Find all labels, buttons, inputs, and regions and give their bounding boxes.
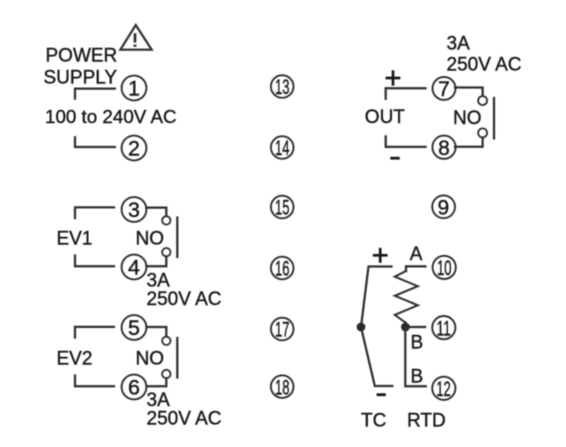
- TC junction dot: [357, 323, 366, 332]
- terminal 13: [271, 75, 294, 99]
- svg-text:100 to 240V AC: 100 to 240V AC: [45, 106, 177, 127]
- label - (OUT polarity): [392, 157, 399, 160]
- wire to terminal 7: [386, 88, 426, 99]
- wire to terminal 1 (L line): [75, 89, 115, 99]
- RTD junction dot: [401, 323, 410, 332]
- wire terminal 5 to EV2 contact: [147, 327, 167, 337]
- svg-text:12: 12: [436, 378, 451, 401]
- wire terminal 3 to EV1 contact: [146, 208, 166, 216]
- wire to terminal 2 (N line): [75, 137, 115, 147]
- svg-text:RTD: RTD: [407, 410, 446, 431]
- svg-text:5: 5: [128, 316, 140, 340]
- svg-text:15: 15: [275, 197, 290, 220]
- wire junction to terminal 11: [410, 326, 425, 328]
- svg-text:250V AC: 250V AC: [147, 409, 222, 430]
- svg-text:NO: NO: [136, 229, 165, 250]
- wire to terminal 3: [75, 207, 114, 218]
- label + (TC polarity): [374, 249, 386, 261]
- svg-text:6: 6: [128, 376, 140, 400]
- EV1 relay contact lower pole: [162, 248, 170, 256]
- svg-text:13: 13: [275, 76, 290, 99]
- wire TC plus lead: [361, 267, 392, 328]
- wire terminal 10 to resistor: [406, 266, 425, 271]
- terminal 16: [271, 257, 294, 281]
- OUT relay contact upper pole: [478, 96, 487, 105]
- wire resistor to junction: [404, 323, 406, 328]
- terminal 6: [122, 375, 147, 400]
- OUT contact actuator bar: [493, 98, 495, 139]
- svg-text:9: 9: [438, 197, 450, 220]
- svg-text:EV2: EV2: [57, 349, 93, 370]
- terminal 11: [432, 316, 455, 340]
- EV2 contact actuator bar: [176, 338, 178, 378]
- svg-text:POWER: POWER: [46, 46, 118, 67]
- svg-text:NO: NO: [453, 108, 482, 129]
- terminal 10: [433, 256, 456, 280]
- terminal 1: [122, 76, 147, 101]
- svg-text:250V AC: 250V AC: [147, 289, 222, 310]
- terminal 5: [122, 315, 147, 340]
- svg-text:17: 17: [275, 319, 290, 342]
- terminal 14: [271, 136, 294, 160]
- svg-text:7: 7: [438, 78, 450, 101]
- label - (TC polarity): [378, 393, 384, 396]
- wire to terminal 6: [75, 376, 114, 387]
- label POWER SUPPLY: [44, 46, 118, 89]
- svg-text:3A: 3A: [447, 34, 471, 55]
- svg-text:16: 16: [275, 258, 290, 281]
- svg-text:18: 18: [275, 376, 290, 399]
- svg-text:4: 4: [128, 256, 140, 280]
- svg-text:EV1: EV1: [57, 229, 93, 250]
- svg-text:8: 8: [438, 137, 450, 160]
- wire TC minus lead: [361, 327, 392, 386]
- svg-text:SUPPLY: SUPPLY: [44, 68, 118, 89]
- terminal 4: [122, 255, 147, 280]
- svg-text:250V AC: 250V AC: [447, 54, 522, 75]
- terminal 9: [432, 195, 455, 219]
- EV1 contact actuator bar: [176, 218, 178, 258]
- wire junction to terminal 12: [405, 332, 426, 387]
- warning symbol caution triangle: [120, 25, 151, 50]
- terminal 18: [271, 375, 294, 399]
- terminal 8: [432, 136, 455, 160]
- EV2 relay contact upper pole: [162, 337, 170, 345]
- wire terminal 7 to OUT contact: [455, 88, 483, 96]
- wire OUT contact to terminal 8: [455, 138, 483, 147]
- svg-text:TC: TC: [361, 410, 386, 431]
- terminal 7: [433, 77, 456, 101]
- svg-text:B: B: [411, 333, 424, 354]
- terminal 2: [122, 136, 147, 161]
- OUT relay contact lower pole: [478, 128, 487, 137]
- EV1 relay contact upper pole: [162, 216, 170, 224]
- terminal 15: [271, 196, 294, 220]
- wire EV2 contact to terminal 6: [147, 378, 167, 386]
- wire to terminal 5: [75, 327, 114, 338]
- svg-text:A: A: [410, 244, 423, 265]
- label + (OUT polarity): [387, 72, 399, 85]
- svg-text:OUT: OUT: [365, 107, 406, 128]
- EV2 relay contact lower pole: [162, 370, 170, 378]
- resistor RTD element: [395, 271, 418, 323]
- svg-text:1: 1: [128, 77, 140, 101]
- terminal 17: [271, 318, 294, 342]
- svg-text:2: 2: [128, 137, 140, 161]
- svg-text:10: 10: [437, 257, 452, 280]
- svg-text:NO: NO: [136, 349, 165, 370]
- wire to terminal 4: [75, 256, 114, 267]
- terminal 12: [432, 377, 455, 402]
- terminal 3: [122, 197, 147, 222]
- svg-text:B: B: [411, 366, 424, 387]
- svg-text:14: 14: [275, 137, 290, 160]
- svg-text:11: 11: [436, 317, 451, 340]
- svg-text:3: 3: [128, 198, 140, 222]
- wire to terminal 8: [386, 136, 426, 147]
- wire EV1 contact to terminal 4: [147, 257, 167, 267]
